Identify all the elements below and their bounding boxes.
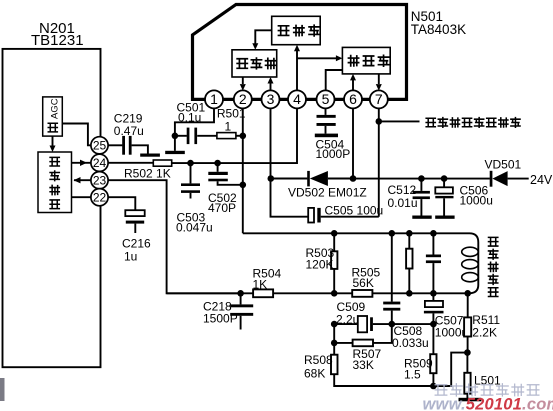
diode VD501 xyxy=(490,171,493,187)
svg-text:TB1231: TB1231 xyxy=(31,32,84,49)
svg-text:VD501: VD501 xyxy=(485,158,522,172)
svg-text:0.047u: 0.047u xyxy=(176,221,213,235)
svg-text:1.5: 1.5 xyxy=(404,367,421,381)
diode VD502 xyxy=(307,171,310,187)
svg-text:0.1u: 0.1u xyxy=(178,110,201,124)
capacitor C507 electrolytic xyxy=(432,293,434,301)
svg-text:R508: R508 xyxy=(304,353,333,367)
resistor R501 xyxy=(217,133,236,139)
inductor L501 xyxy=(466,353,468,373)
capacitor C508 with line from top rail xyxy=(391,233,393,301)
block 场输出 (field output) xyxy=(232,50,277,77)
svg-text:1: 1 xyxy=(210,91,218,107)
node junction C509 right C508 bottom xyxy=(389,321,396,328)
pin 7 xyxy=(370,90,388,108)
capacitor C216 electrolytic xyxy=(125,210,144,216)
wire pin 2 vertical down to top rail xyxy=(242,108,244,233)
node junction R501 right xyxy=(240,133,247,140)
node junction C218 top xyxy=(237,290,244,297)
wire node to ground xyxy=(174,136,176,151)
wire R502 to pin 4 turn xyxy=(172,108,297,163)
label 场偏转线圈 (vertical deflection coil) xyxy=(488,237,499,246)
wire pin 22 to C216 xyxy=(108,197,135,210)
svg-text:1u: 1u xyxy=(124,249,137,263)
node junction C508 on top rail xyxy=(389,230,396,237)
pin 5 xyxy=(317,90,335,108)
svg-text:www.520101.com: www.520101.com xyxy=(423,396,553,411)
capacitor C219 xyxy=(122,136,125,155)
svg-text:R502 1K: R502 1K xyxy=(124,166,171,180)
node junction coil bottom xyxy=(464,290,471,297)
svg-text:0.01u: 0.01u xyxy=(388,196,418,210)
wire flyback output stub xyxy=(379,120,420,122)
node junction R503 top xyxy=(331,230,338,237)
wire AGC to pin 25 xyxy=(62,124,91,146)
pin 2 xyxy=(234,90,252,108)
node junction C510 top xyxy=(430,230,437,237)
node junction R506 bottom xyxy=(406,290,413,297)
svg-text:AGC: AGC xyxy=(49,98,60,119)
node junction C502 bottom on pin2 line xyxy=(240,182,247,189)
node junction C512 xyxy=(418,175,425,182)
node junction R503 bottom xyxy=(331,290,338,297)
watermark 家电维修资料网 xyxy=(435,385,448,395)
wire pin 23 down-left rail xyxy=(108,180,241,293)
svg-text:1500P: 1500P xyxy=(203,312,238,326)
pin 3 xyxy=(262,90,280,108)
wire AGC to sawtooth with arrow xyxy=(52,136,54,145)
svg-text:56K: 56K xyxy=(353,276,374,290)
ground bar C512 xyxy=(412,216,431,219)
node junction R507 left xyxy=(331,340,338,347)
svg-text:33K: 33K xyxy=(353,358,374,372)
wire pin 5 to pump block xyxy=(326,70,343,91)
svg-text:2: 2 xyxy=(239,91,247,107)
wire pin 22 to sawtooth xyxy=(72,196,92,198)
wire top feedback rail from pin2 line to deflection coil xyxy=(243,233,478,293)
svg-text:23: 23 xyxy=(93,174,107,188)
resistor R502 xyxy=(153,160,171,166)
svg-text:1: 1 xyxy=(225,120,232,134)
wire C219 to ground xyxy=(132,145,148,153)
svg-text:C216: C216 xyxy=(122,236,151,250)
pin 6 xyxy=(344,90,362,108)
resistor R507 xyxy=(353,340,373,347)
IC N201 TB1231 block outline xyxy=(3,49,101,367)
capacitor C512 xyxy=(420,179,422,191)
svg-text:C505 100u: C505 100u xyxy=(325,203,384,217)
wire pin 25 to C219 xyxy=(108,144,122,146)
wire pin 24 line xyxy=(108,162,153,164)
wire bottom rail xyxy=(334,353,467,386)
node junction pin3 diode line xyxy=(268,175,275,182)
pin 24 xyxy=(91,154,108,171)
svg-text:C512: C512 xyxy=(388,183,417,197)
node junction C503 top xyxy=(187,160,194,167)
svg-text:VD502 EM01Z: VD502 EM01Z xyxy=(288,186,367,200)
capacitor C503 xyxy=(190,163,192,183)
resistor R506 vertical unlabeled xyxy=(408,233,410,248)
label 场逆程脉冲输出 (field flyback pulse output) xyxy=(425,118,436,127)
pin 25 xyxy=(91,137,108,154)
pin 4 xyxy=(288,90,306,108)
IC N501 TA8403K outline xyxy=(193,5,407,100)
wire R501 to pin2 line xyxy=(236,135,243,137)
capacitor C504 from pin 5 xyxy=(325,108,327,115)
svg-text:3: 3 xyxy=(267,91,275,107)
capacitor C501 xyxy=(175,135,187,137)
wire pin 3 vertical and C505 line xyxy=(271,108,309,216)
node junction C507 bottom xyxy=(430,321,437,328)
wire pin 7 vertical xyxy=(378,108,380,216)
capacitor C505 electrolytic horizontal xyxy=(308,208,314,223)
wire C509 node line y=324 xyxy=(334,323,358,325)
svg-text:24V: 24V xyxy=(530,173,553,187)
node junction R509 bottom xyxy=(430,383,437,390)
pin 22 xyxy=(91,189,108,206)
svg-text:2.2K: 2.2K xyxy=(472,326,497,340)
block 泵电源 (pump power) xyxy=(342,47,390,74)
capacitor C510 unlabeled xyxy=(432,233,434,254)
svg-text:470P: 470P xyxy=(208,201,236,215)
wire pump to pin 7 arrow down xyxy=(378,74,380,84)
pin 1 xyxy=(205,90,223,108)
block 场AGC (field AGC) xyxy=(43,97,63,136)
svg-text:68K: 68K xyxy=(304,366,325,380)
svg-text:1K: 1K xyxy=(253,277,268,291)
node junction C510 bottom xyxy=(430,290,437,297)
svg-text:0.47u: 0.47u xyxy=(114,124,144,138)
wire mid feedback rail xyxy=(167,292,254,294)
resistor R505 xyxy=(352,290,372,297)
capacitor C502 xyxy=(217,163,219,172)
node junction C506 xyxy=(441,175,448,182)
node junction R506 top xyxy=(406,230,413,237)
resistor R508 vertical xyxy=(333,324,335,355)
pin 23 xyxy=(91,172,108,189)
svg-text:6: 6 xyxy=(349,91,357,107)
svg-text:120K: 120K xyxy=(306,258,334,272)
svg-text:0.033u: 0.033u xyxy=(392,336,429,350)
ground bar C506 xyxy=(435,216,454,219)
node junction C502 top xyxy=(214,160,221,167)
svg-text:4: 4 xyxy=(293,91,301,107)
svg-text:R501: R501 xyxy=(217,107,246,121)
deflection coil L loops xyxy=(462,247,479,256)
block 场锯齿波 (field sawtooth) xyxy=(38,152,72,213)
diode line pin3 to pin6 xyxy=(271,178,308,180)
svg-text:1000u: 1000u xyxy=(460,194,493,208)
node junction R511 L501 xyxy=(464,349,471,356)
wire sawtooth to pin 24 with right arrow xyxy=(72,162,92,164)
svg-text:24: 24 xyxy=(93,156,107,170)
node junction C501 left xyxy=(172,133,179,140)
ground bar C219 xyxy=(140,154,160,157)
wire pin 6 to pump arrow up xyxy=(352,79,354,91)
capacitor C218 xyxy=(240,293,242,304)
wire mid rail right part xyxy=(273,292,352,294)
capacitor C509 electrolytic horizontal xyxy=(358,316,367,332)
wire pin 4 branch to pump arrow right xyxy=(297,57,338,59)
wire pin 1 to C501 node xyxy=(175,108,214,135)
ground bar C501 xyxy=(165,151,185,154)
svg-text:TA8403K: TA8403K xyxy=(411,22,466,37)
resistor R503 vertical xyxy=(333,233,335,251)
svg-text:22: 22 xyxy=(93,191,107,205)
wire pin 6 vertical xyxy=(352,108,354,178)
wire pin 3 to output block arrow up xyxy=(270,82,272,91)
svg-text:25: 25 xyxy=(93,139,107,153)
wire output block to pin 2 arrow down xyxy=(242,77,244,84)
resistor R509 vertical xyxy=(432,324,434,354)
svg-text:7: 7 xyxy=(375,91,383,107)
svg-text:5: 5 xyxy=(322,91,330,107)
wire pin 4 to driver arrow up xyxy=(296,50,298,91)
block 场激励 (field driver) xyxy=(272,16,321,44)
resistor R511 vertical xyxy=(467,293,469,317)
wire mid rail to coil bottom xyxy=(372,292,467,294)
capacitor C506 electrolytic xyxy=(443,179,445,188)
svg-text:1000P: 1000P xyxy=(316,147,351,161)
ground bar L501 xyxy=(459,398,482,402)
svg-text:2.2u: 2.2u xyxy=(336,313,359,327)
wire pin 23 to sawtooth with left arrow xyxy=(74,179,91,181)
node junction flyback output stub xyxy=(376,118,383,125)
wire 24V supply line xyxy=(353,178,490,180)
ground bar C504 xyxy=(315,134,338,138)
scan artifact gray bar left edge xyxy=(0,378,5,401)
node junction C509 left xyxy=(331,321,338,328)
wire driver to output block xyxy=(255,30,271,45)
wire R507 branch xyxy=(334,342,352,344)
resistor R504 xyxy=(253,289,273,297)
node junction pin6 anode xyxy=(350,175,357,182)
